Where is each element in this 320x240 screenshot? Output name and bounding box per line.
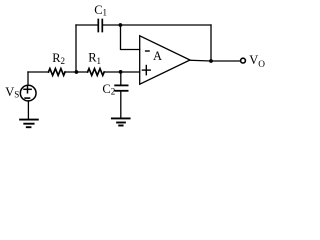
svg-text:A: A: [153, 49, 162, 63]
